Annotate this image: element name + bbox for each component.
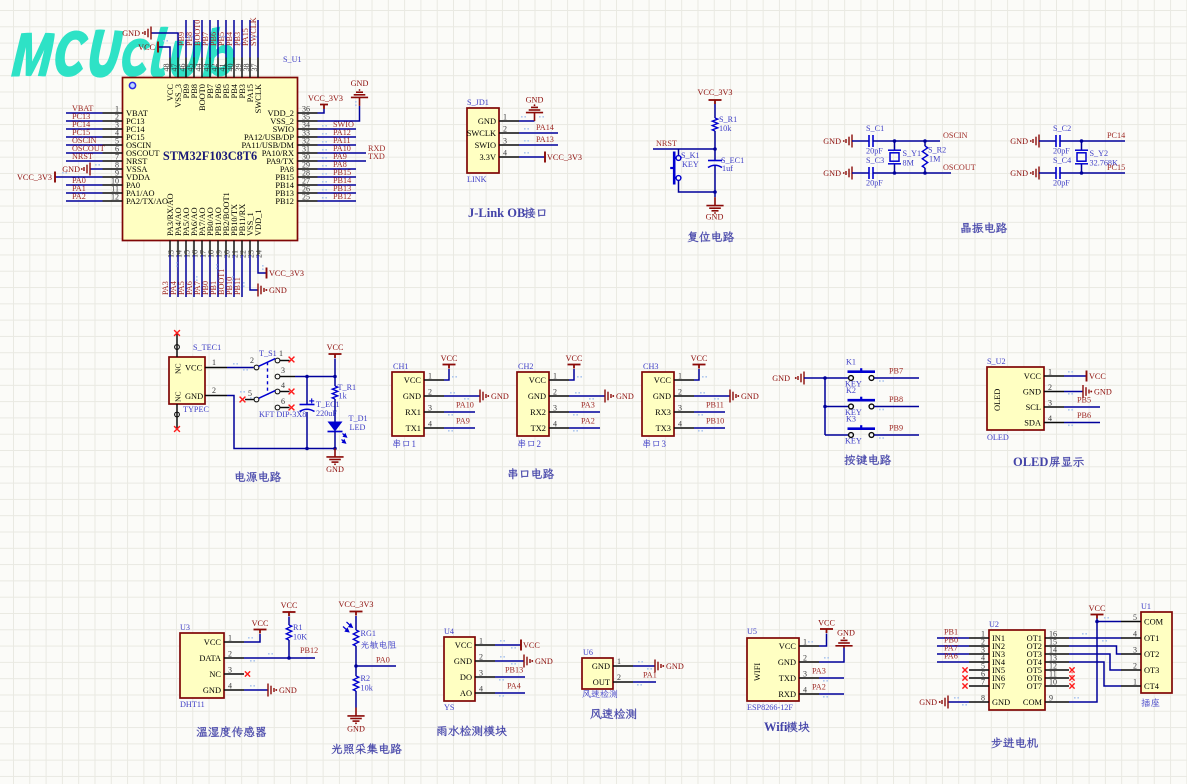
T_S1 pin 3 contact	[275, 374, 280, 379]
svg-text:DHT11: DHT11	[180, 700, 205, 709]
wire net PB13	[318, 192, 357, 194]
svg-text:KEY: KEY	[845, 437, 862, 446]
svg-text:PB11: PB11	[233, 277, 242, 295]
svg-text:CH1: CH1	[393, 362, 408, 371]
mcu pin 13 PA3/RX/AO	[169, 241, 171, 256]
svg-text:PA3: PA3	[581, 401, 595, 410]
gnd symbol CH2	[605, 390, 611, 403]
U4 pin 3 DO	[475, 676, 495, 678]
svg-text:TYPEC: TYPEC	[183, 405, 209, 414]
svg-text:PA2/TX/AO: PA2/TX/AO	[126, 197, 168, 206]
T_S1 pin4 stub nc	[280, 391, 290, 393]
mcu pin 39 PB3	[241, 58, 243, 78]
T_S1 pin6 stub nc	[280, 407, 290, 409]
svg-text:VCC: VCC	[654, 376, 672, 385]
svg-text:2: 2	[228, 650, 232, 659]
selection marks mcu bottom	[176, 262, 234, 281]
key K2	[845, 386, 875, 417]
mcu index mark	[129, 82, 135, 88]
wire net PB1	[217, 255, 219, 297]
U1 pin 5 COM	[1121, 621, 1141, 623]
wire node to key	[678, 149, 680, 156]
wire net PA2 wifi	[819, 694, 844, 698]
power flag VCC CH2	[568, 365, 581, 369]
svg-text:2: 2	[428, 388, 432, 397]
mcu pin 41 PB5	[225, 58, 227, 78]
wire cap top to net	[1060, 140, 1104, 142]
serial port CH3 group	[642, 354, 759, 449]
gnd symbol uln2003	[942, 696, 948, 709]
T_S1 pin3 wire	[280, 376, 295, 378]
mcu pin 29 PA8	[298, 168, 318, 170]
svg-text:1: 1	[479, 637, 483, 646]
svg-text:NC: NC	[209, 670, 221, 679]
mcu pin 48 VCC	[169, 58, 171, 78]
mcu pin 10 PA0	[103, 184, 123, 186]
crystal circuit 8M group	[823, 124, 976, 188]
svg-text:1: 1	[678, 372, 682, 381]
wire net PA6	[193, 255, 195, 297]
key K3	[845, 415, 875, 446]
svg-text:T_S1: T_S1	[259, 349, 277, 358]
label DHT11	[180, 700, 205, 709]
svg-text:VCC: VCC	[1089, 372, 1106, 381]
svg-text:GND: GND	[1023, 388, 1041, 397]
T_S1 pin1 stub nc	[280, 360, 290, 362]
wire net BOOT1	[225, 255, 227, 297]
label serial port 3	[643, 439, 650, 448]
S_TEC1 pin 2	[205, 386, 227, 396]
T_S1 pin5 stub nc	[245, 399, 254, 401]
mcu pin 38 PA15	[249, 58, 251, 78]
svg-text:PB6: PB6	[1077, 411, 1091, 420]
power flag VCC power circuit	[327, 343, 344, 358]
wire resistor to led	[334, 399, 336, 422]
CH2 pin 3 RX2	[549, 411, 569, 413]
gnd symbol at mcu VSSA pin 8	[62, 163, 102, 176]
svg-text:S_Y1: S_Y1	[903, 149, 922, 158]
wire net PB12	[318, 200, 357, 202]
svg-text:NRST: NRST	[656, 139, 677, 148]
wire vcc to R1	[288, 617, 290, 626]
svg-text:20pF: 20pF	[866, 179, 883, 188]
wire net PB12	[244, 653, 315, 662]
wire CH1 gnd	[444, 395, 480, 397]
wire cap bottom to net	[1060, 172, 1104, 174]
wire net PB10	[233, 255, 235, 297]
mcu pin 1 VBAT	[103, 112, 123, 114]
U5 pin 1 VCC	[799, 645, 819, 647]
svg-text:DO: DO	[460, 673, 472, 682]
svg-text:GND: GND	[528, 392, 546, 401]
S_TEC1 pin 1	[205, 358, 227, 368]
wire net PB7	[874, 378, 919, 382]
power flag VCC dht11	[252, 619, 269, 634]
wire net PA9	[444, 427, 475, 429]
label KFT DIP-3X8	[259, 410, 306, 419]
wire gnd to cap bottom	[1039, 172, 1056, 174]
serial port CH2 group	[517, 354, 634, 449]
svg-text:NRST: NRST	[72, 152, 93, 161]
U1 pin 3 OT2	[1121, 653, 1141, 655]
wire net PB3	[241, 20, 243, 58]
svg-text:IN7: IN7	[992, 682, 1005, 691]
wire net PC13	[66, 120, 103, 122]
svg-text:2: 2	[503, 125, 507, 134]
svg-text:4: 4	[553, 420, 557, 429]
svg-text:GND: GND	[269, 286, 287, 295]
svg-text:1: 1	[1133, 678, 1137, 687]
mcu pin 47 VSS_3	[177, 58, 179, 78]
wire net PA14	[519, 128, 558, 133]
CH1 pin 1 VCC	[424, 379, 444, 381]
wire CH3 gnd	[694, 395, 730, 397]
mcu pin 21 PB10/TX	[233, 241, 235, 256]
mcu pin 24 VDD_1	[257, 241, 259, 256]
mcu left pins group	[66, 104, 168, 206]
svg-text:3: 3	[281, 366, 285, 375]
svg-text:VCC: VCC	[691, 354, 708, 363]
dht11 U3 designator	[180, 623, 190, 632]
mcu pin 43 PB7	[209, 58, 211, 78]
wire net PA15	[249, 20, 251, 58]
wire node to R2	[355, 666, 357, 676]
svg-text:K2: K2	[846, 386, 856, 395]
U4 pin 1 VCC	[475, 644, 495, 646]
svg-text:RX3: RX3	[655, 408, 671, 417]
resistor S_R2 1M	[924, 141, 926, 146]
power flag VCC_3V3 at mcu VDDA pin 9	[17, 172, 103, 183]
mcu pin 28 PB15	[298, 176, 318, 178]
svg-text:RG1: RG1	[361, 629, 376, 638]
wire rain gnd	[495, 656, 524, 665]
dht11 pins	[199, 634, 244, 696]
wire CH3 vcc	[694, 369, 699, 380]
svg-text:10: 10	[1049, 678, 1057, 687]
rain U4 designator	[444, 627, 454, 636]
wire net PB13	[495, 677, 525, 681]
T_S1 pin 6 contact	[275, 405, 280, 410]
junction data node	[287, 656, 291, 660]
svg-text:COM: COM	[1144, 618, 1164, 627]
svg-text:20pF: 20pF	[1053, 179, 1070, 188]
wire net PA1	[633, 682, 656, 686]
svg-text:GND: GND	[1010, 169, 1028, 178]
wire net PB4	[233, 20, 235, 58]
svg-text:S_C2: S_C2	[1053, 124, 1071, 133]
wire net PA11	[318, 144, 357, 146]
mcu STM32F103C8T6 body	[123, 78, 298, 241]
svg-text:U3: U3	[180, 623, 190, 632]
svg-text:220uF: 220uF	[316, 409, 337, 418]
wire COM to VCC	[1069, 619, 1097, 703]
socket U1 body	[1141, 612, 1172, 693]
svg-text:3: 3	[1048, 399, 1052, 408]
T_S1 blade 5-4	[259, 391, 276, 399]
switch T_S1 contacts	[240, 349, 335, 410]
power flag VCC CH3	[693, 365, 706, 369]
svg-text:8: 8	[981, 694, 985, 703]
mcu pin 12 PA2/TX/AO	[103, 200, 123, 202]
capacitor S_C3 20pF	[869, 167, 873, 179]
wire wifi gnd	[819, 648, 844, 662]
wifi rotated name	[753, 663, 762, 681]
label serial port 1	[393, 439, 400, 448]
mcu pin 22 PB11/RX	[241, 241, 243, 256]
svg-text:VCC: VCC	[185, 364, 203, 373]
nc dotted marks OT5-OT7	[1071, 672, 1073, 684]
svg-text:7: 7	[981, 678, 985, 687]
U6 pin 1 GND	[592, 657, 633, 671]
svg-text:9: 9	[1049, 694, 1053, 703]
svg-text:S_C1: S_C1	[866, 124, 884, 133]
svg-text:VCC: VCC	[138, 43, 155, 52]
svg-text:TX2: TX2	[531, 424, 546, 433]
mcu pin 14 PA4/AO	[177, 241, 179, 256]
power flag VCC at mcu pin 48	[138, 42, 170, 58]
mcu pin 35 VSS_2	[298, 120, 318, 122]
connector S_JD1 body	[467, 108, 499, 173]
title power circuit	[236, 471, 282, 482]
mcu pin 3 PC14	[103, 128, 123, 130]
svg-text:S_U2: S_U2	[987, 357, 1006, 366]
mcu pin 36 VDD_2	[298, 112, 318, 114]
capacitor S_C4 20pF	[1056, 167, 1060, 179]
wire typec gnd down	[227, 391, 335, 449]
mcu pin 2 PC13	[103, 120, 123, 122]
crystal S_Y2	[1081, 141, 1083, 150]
title key circuit	[844, 454, 891, 465]
svg-text:8M: 8M	[903, 159, 915, 168]
svg-text:AO: AO	[460, 689, 472, 698]
svg-text:3: 3	[553, 404, 557, 413]
svg-text:PA1: PA1	[643, 671, 657, 680]
gnd symbol crystal bottom	[1033, 167, 1039, 180]
mcu pin 27 PB14	[298, 184, 318, 186]
svg-text:K1: K1	[846, 358, 856, 367]
U4 pin 4 AO	[475, 692, 495, 694]
net label PA14	[536, 123, 554, 132]
svg-text:24: 24	[254, 250, 263, 258]
svg-text:SWCLK: SWCLK	[254, 84, 263, 113]
power flag VCC wifi	[818, 619, 835, 634]
svg-text:TX1: TX1	[406, 424, 421, 433]
wire rain vcc	[495, 640, 521, 649]
S_U2 pin 3 SCL	[1044, 406, 1064, 408]
net label PB13	[505, 666, 523, 675]
mcu pin 26 PB13	[298, 192, 318, 194]
socket U1 designator	[1141, 602, 1151, 611]
svg-text:SCL: SCL	[1026, 403, 1041, 412]
CH1 pin 2 GND	[424, 395, 444, 397]
wire net PA2	[66, 200, 103, 202]
S_U2 pin 2 GND	[1044, 391, 1064, 393]
wire net NRST	[653, 148, 715, 150]
wire net PA7	[201, 255, 203, 297]
wire net PA3	[569, 411, 600, 413]
connector CH3 body	[642, 372, 674, 436]
svg-text:10k: 10k	[719, 124, 732, 133]
gnd symbol wifi	[835, 629, 855, 649]
svg-text:S_K1: S_K1	[681, 151, 700, 160]
svg-text:S_R2: S_R2	[928, 146, 946, 155]
net label PA3 wifi	[812, 667, 826, 676]
label ESP8266-12F	[747, 703, 793, 712]
wire OT1 to socket	[1069, 633, 1121, 642]
svg-text:GND: GND	[992, 698, 1010, 707]
svg-text:4: 4	[803, 686, 807, 695]
U3 pin3 nc	[245, 671, 250, 676]
svg-text:S_TEC1: S_TEC1	[193, 343, 221, 352]
svg-text:2: 2	[537, 439, 542, 449]
wire cap to rail	[306, 412, 308, 449]
net label PB9	[889, 424, 903, 433]
svg-text:TXD: TXD	[368, 152, 385, 161]
wire net SWIO	[318, 128, 357, 130]
svg-text:Wifi: Wifi	[764, 720, 788, 734]
svg-text:VCC_3V3: VCC_3V3	[17, 173, 52, 182]
CH1 pin 3 RX1	[424, 411, 444, 413]
svg-text:3: 3	[678, 404, 682, 413]
mcu pin 19 PB1/AO	[217, 241, 219, 256]
svg-text:YS: YS	[444, 703, 455, 712]
capacitor S_C1 20pF	[869, 135, 873, 147]
svg-text:U5: U5	[747, 627, 757, 636]
wire oled gnd	[1064, 392, 1083, 395]
wire cap bottom to net	[873, 172, 940, 174]
title crystal circuit	[961, 222, 1007, 233]
S_TEC1 pin names	[174, 363, 204, 402]
wire vcc to socket COM	[1097, 617, 1121, 622]
U5 pin 2 GND	[799, 661, 819, 663]
svg-text:2: 2	[617, 673, 621, 682]
wire net PB7	[209, 20, 211, 58]
wire gnd to cap top	[852, 140, 869, 142]
net label PB12	[300, 646, 318, 655]
svg-text:T_EC1: T_EC1	[316, 400, 340, 409]
wire CH2 vcc	[569, 369, 574, 380]
svg-text:GND: GND	[491, 392, 509, 401]
net label PA13	[536, 135, 554, 144]
svg-text:1: 1	[553, 372, 557, 381]
wire net PA3	[169, 255, 171, 297]
mcu pin 4 PC15	[103, 136, 123, 138]
selection marks mcu top	[188, 36, 257, 45]
junction dots crystal	[893, 139, 897, 143]
wire net PA10	[318, 152, 367, 154]
wire oled vcc	[1064, 371, 1086, 376]
svg-text:OLED: OLED	[1013, 455, 1048, 469]
CH1 pin 4 TX1	[424, 427, 444, 429]
wire net PB15	[318, 176, 357, 178]
gnd symbol rain	[524, 655, 553, 668]
svg-text:GND: GND	[403, 392, 421, 401]
CH3 pin 4 TX3	[674, 427, 694, 429]
svg-text:VCC: VCC	[404, 376, 422, 385]
svg-text:RX1: RX1	[405, 408, 421, 417]
T_S1 pin 4 contact	[275, 389, 280, 394]
mcu pin 6 OSCOUT	[103, 152, 123, 154]
wire keys gnd rail	[804, 378, 849, 435]
gnd symbol dht11	[268, 684, 297, 697]
wire net PB6	[217, 20, 219, 58]
svg-text:KFT DIP-3X8: KFT DIP-3X8	[259, 410, 306, 419]
svg-text:ESP8266-12F: ESP8266-12F	[747, 703, 793, 712]
svg-text:S_JD1: S_JD1	[467, 98, 489, 107]
svg-text:1: 1	[228, 634, 232, 643]
junction rail right	[333, 447, 337, 451]
svg-text:VCC: VCC	[204, 638, 222, 647]
S_TEC1 NC pin top	[174, 330, 180, 357]
svg-text:PA13: PA13	[536, 135, 554, 144]
title temperature humidity sensor	[197, 726, 266, 737]
svg-text:20pF: 20pF	[1053, 147, 1070, 156]
gnd symbol power circuit	[326, 449, 344, 475]
wire net PA7	[937, 653, 969, 655]
power flag VCC rain	[521, 640, 540, 651]
power flag VCC stepper	[1089, 604, 1106, 619]
svg-text:PA3: PA3	[812, 667, 826, 676]
svg-text:VCC: VCC	[818, 619, 835, 628]
svg-text:GND: GND	[122, 29, 140, 38]
svg-text:PC14: PC14	[1107, 131, 1125, 140]
S_JD1 pin 1 GND	[499, 120, 519, 122]
svg-text:K3: K3	[846, 415, 856, 424]
svg-text:OSCOUT: OSCOUT	[943, 163, 976, 172]
wifi U5 designator	[747, 627, 757, 636]
wire OT4 to socket	[1069, 662, 1121, 686]
svg-text:J-Link OB: J-Link OB	[468, 206, 525, 220]
U1 pin 1 CT4	[1121, 685, 1141, 687]
resistor T_R1 1k	[332, 383, 356, 401]
CH3 pin 1 VCC	[674, 379, 694, 381]
S_JD1 pin 2 SWCLK	[499, 132, 519, 134]
mcu pin 20 PB2/BOOT1	[225, 241, 227, 256]
wire keys K2 branch	[825, 406, 849, 408]
rain body	[444, 637, 475, 701]
junction node NRST	[713, 147, 717, 151]
svg-text:3: 3	[662, 439, 667, 449]
svg-text:PA0: PA0	[376, 656, 390, 665]
U3 pin 3 NC	[224, 673, 244, 675]
svg-text:S_C3: S_C3	[866, 156, 884, 165]
svg-text:1: 1	[212, 358, 216, 367]
power flag VCC_3V3 at J-Link	[545, 152, 582, 163]
mcu pin 45 PB8	[193, 58, 195, 78]
svg-text:RX2: RX2	[530, 408, 546, 417]
svg-text:PA6: PA6	[944, 652, 958, 661]
svg-text:VCC: VCC	[566, 354, 583, 363]
capacitor T_EC1 220uF	[300, 398, 340, 418]
svg-text:4: 4	[1048, 414, 1052, 423]
svg-text:S_R1: S_R1	[719, 115, 737, 124]
svg-text:TX3: TX3	[656, 424, 671, 433]
svg-text:1uf: 1uf	[722, 164, 733, 173]
wire net PB5	[225, 20, 227, 58]
svg-text:1: 1	[803, 638, 807, 647]
uln2003 U2 designator	[989, 620, 999, 629]
S_JD1 pin 3 SWIO	[499, 144, 519, 146]
U1 pin 4 OT1	[1121, 637, 1141, 639]
wire keys K3 branch	[825, 434, 849, 436]
led T_D1	[328, 414, 368, 443]
wire CH1 vcc	[444, 369, 449, 380]
mcu pin 42 PB6	[217, 58, 219, 78]
svg-text:PB13: PB13	[505, 666, 523, 675]
U3 pin 4 GND	[224, 689, 244, 691]
wire net PA5	[185, 255, 187, 297]
svg-text:NC: NC	[174, 363, 183, 374]
